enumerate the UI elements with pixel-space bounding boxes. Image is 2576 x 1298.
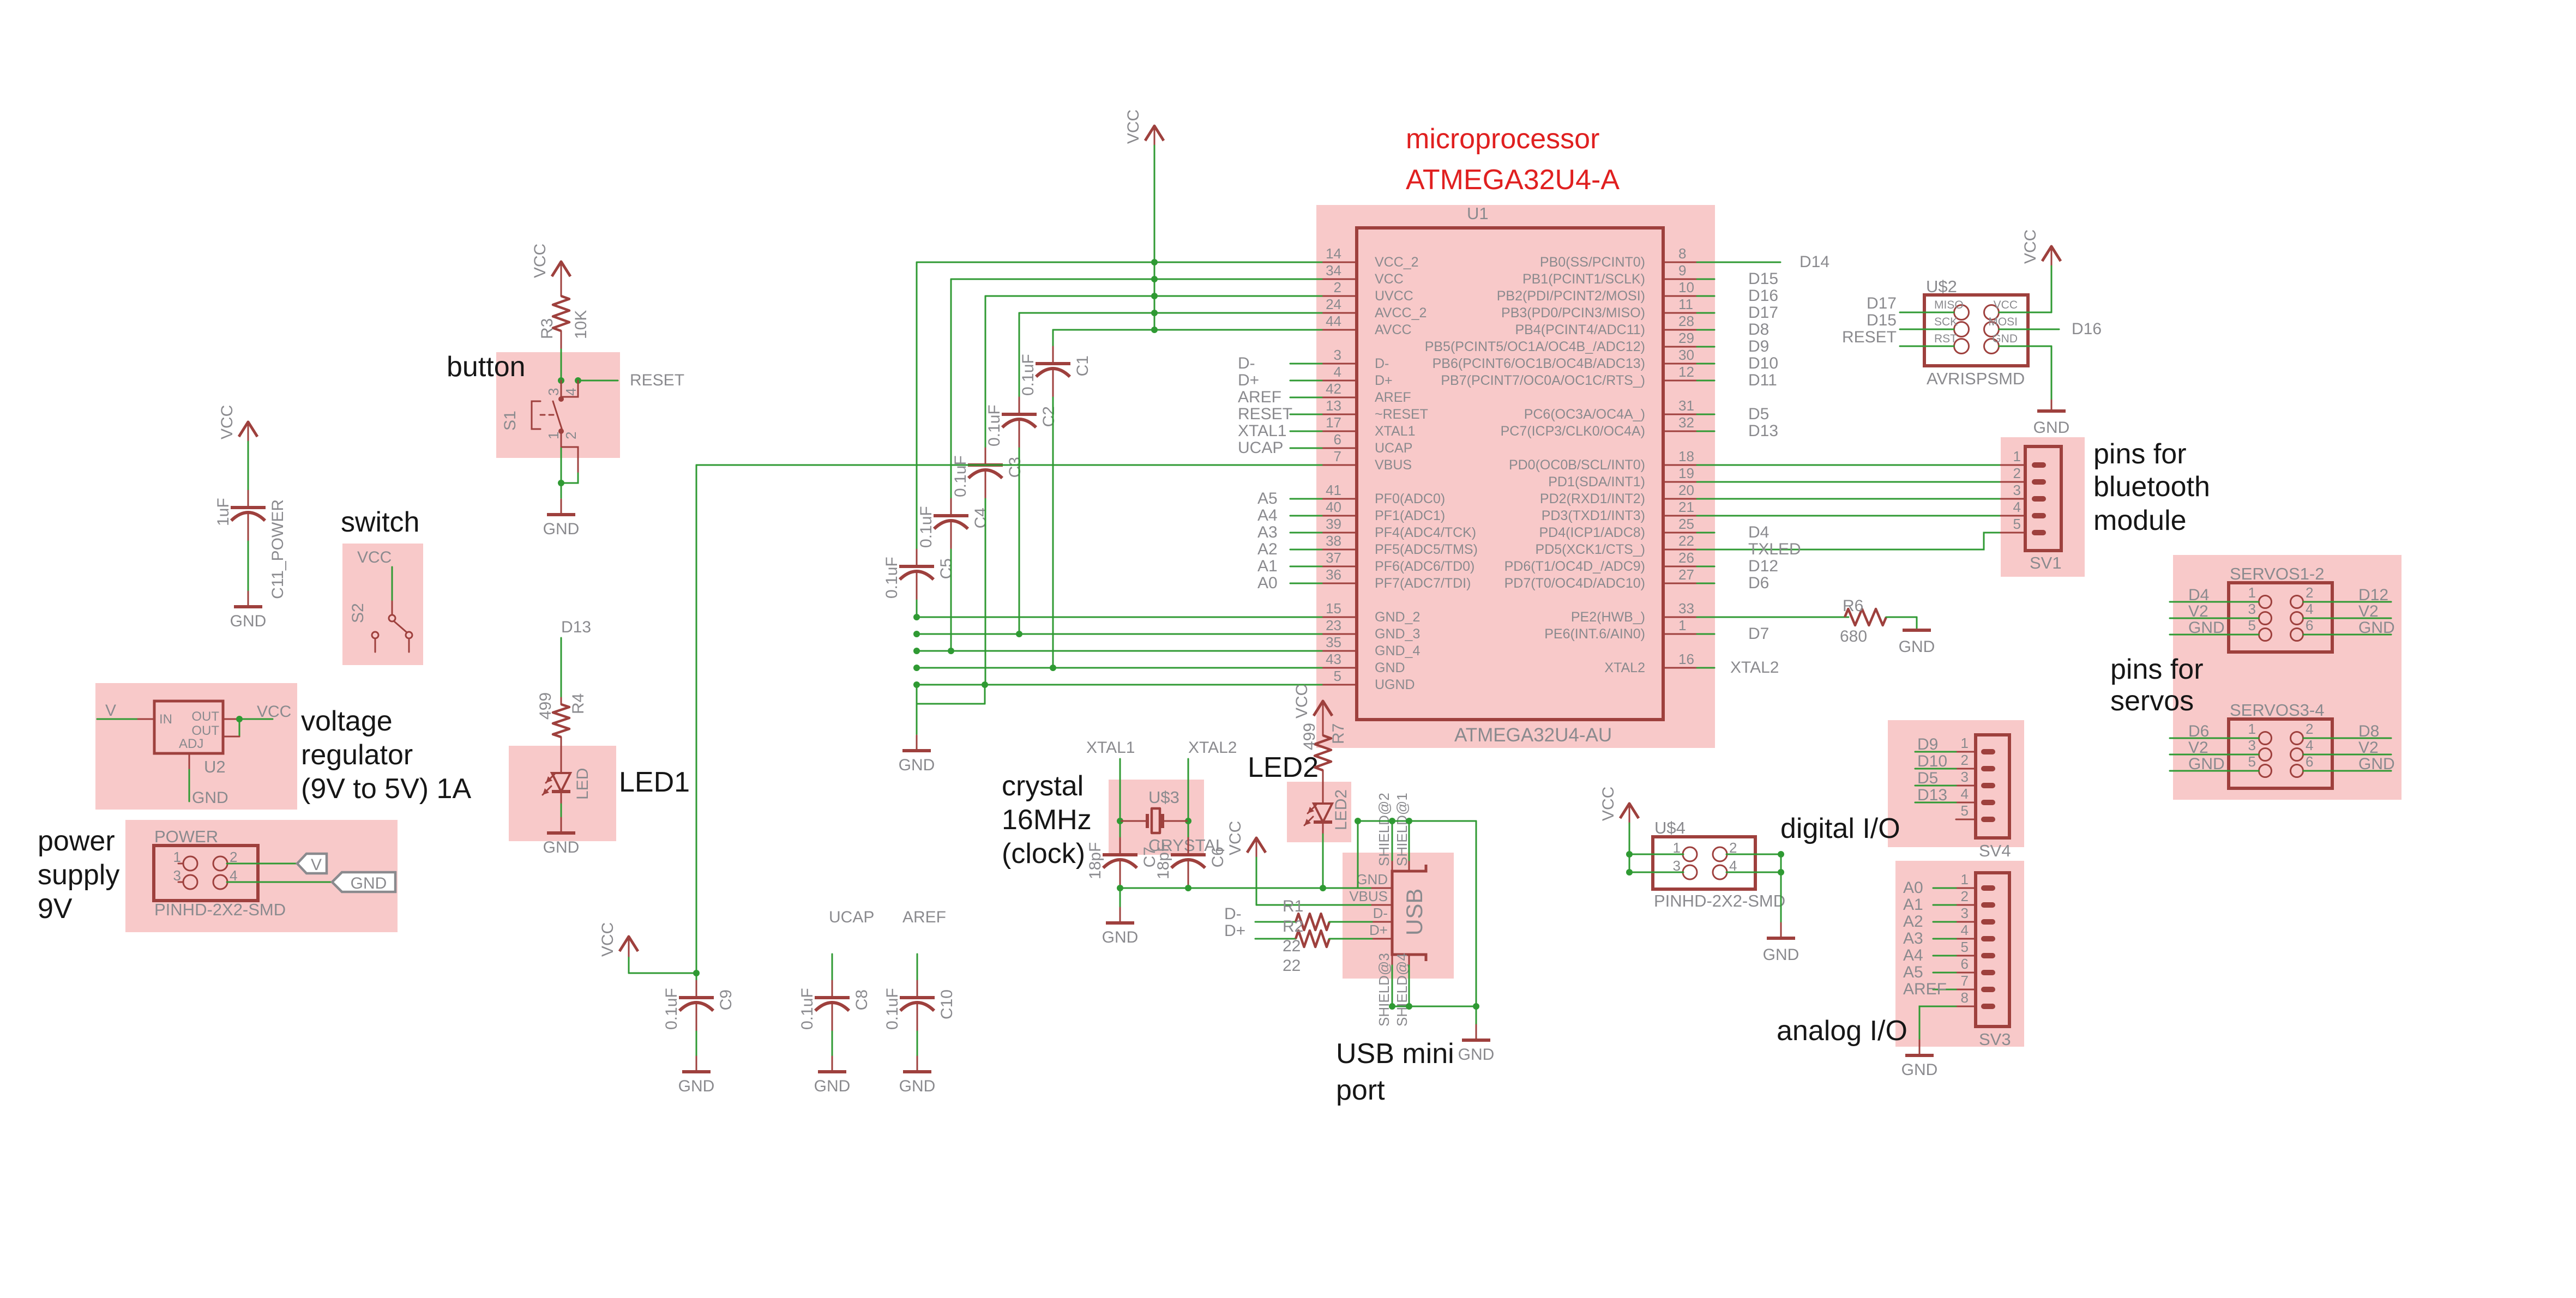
pad circle U$2 right GND (1984, 339, 1999, 354)
pin 36 (PF7(ADC7/TDI)) left stub (1322, 583, 1357, 584)
svg-text:7: 7 (1961, 973, 1969, 989)
wire VCC row pin row 0 to column C5 (917, 262, 1322, 263)
svg-text:GND: GND (1375, 660, 1405, 675)
wire C10 to ground (917, 1031, 918, 1056)
svg-text:USB: USB (1401, 889, 1427, 935)
svg-text:PF1(ADC1): PF1(ADC1) (1375, 508, 1445, 523)
svg-text:UCAP: UCAP (1375, 440, 1412, 456)
pin 11 (PB3(PD0/PCIN3/MISO)) right stub (1663, 312, 1697, 314)
svg-text:18pF: 18pF (1086, 842, 1104, 879)
svg-text:GND_4: GND_4 (1375, 643, 1420, 659)
svg-text:LED: LED (574, 768, 592, 800)
svg-text:3: 3 (1961, 769, 1969, 785)
svg-text:9: 9 (1678, 262, 1686, 279)
pin 5 (UGND) left stub (1322, 684, 1357, 686)
svg-text:(9V to 5V) 1A: (9V to 5V) 1A (301, 773, 471, 805)
svg-text:ATMEGA32U4-AU: ATMEGA32U4-AU (1454, 725, 1612, 746)
wire net A5 to SV3 (1933, 972, 1956, 974)
wire net AREF stub left of chip (1290, 397, 1322, 399)
svg-text:0.1uF: 0.1uF (883, 557, 901, 599)
wire SERVOS3-4 right pin 6 (2303, 770, 2391, 772)
svg-text:0.1uF: 0.1uF (663, 988, 681, 1030)
wire vertical C5 column (916, 262, 918, 550)
wire net D11 stub right of chip (1697, 380, 1714, 382)
pin 28 (PB4(PCINT4/ADC11)) right stub (1663, 329, 1697, 331)
svg-text:D-: D- (1373, 905, 1388, 921)
svg-text:PF7(ADC7/TDI): PF7(ADC7/TDI) (1375, 576, 1471, 591)
highlight LED2 (1287, 782, 1351, 842)
header SV4 body (1976, 735, 2009, 838)
svg-text:USB mini: USB mini (1336, 1038, 1454, 1070)
svg-text:~RESET: ~RESET (1375, 407, 1428, 422)
pin 15 (GND_2) left stub (1322, 617, 1357, 618)
wire net A3 stub left of chip (1290, 532, 1322, 534)
pin 2 SV1 (2001, 481, 2025, 483)
pin 2 (UVCC) left stub (1322, 295, 1357, 297)
svg-text:AREF: AREF (1238, 388, 1281, 406)
svg-text:D17: D17 (1867, 294, 1897, 312)
svg-text:2: 2 (1961, 752, 1969, 768)
svg-text:VCC_2: VCC_2 (1375, 255, 1419, 270)
pad circle U$4 pin2 (1713, 847, 1727, 861)
svg-text:GND: GND (2033, 419, 2070, 437)
svg-text:30: 30 (1678, 347, 1694, 363)
wire SERVOS1-2 right pin 6 (2303, 634, 2391, 636)
svg-text:GND: GND (351, 874, 387, 892)
pin 6 SV3 (1956, 972, 1976, 974)
svg-text:U$2: U$2 (1926, 277, 1957, 296)
svg-text:33: 33 (1678, 600, 1694, 617)
wire SERVOS3-4 left pin 1 (2170, 738, 2259, 739)
svg-text:ADJ: ADJ (179, 736, 203, 751)
wire vertical C4 column (950, 279, 952, 499)
svg-text:UCAP: UCAP (829, 908, 874, 926)
svg-text:D10: D10 (1748, 354, 1778, 372)
svg-text:29: 29 (1678, 330, 1694, 346)
wire vertical C3 column (985, 296, 986, 448)
wire D13 to R4 (561, 638, 562, 698)
svg-text:PB5(PCINT5/OC1A/OC4B_/ADC12): PB5(PCINT5/OC1A/OC4B_/ADC12) (1425, 339, 1645, 354)
svg-text:6: 6 (2306, 617, 2313, 633)
junction shield@2 (1389, 818, 1395, 824)
svg-text:1: 1 (2248, 584, 2256, 601)
pin 43 (GND) left stub (1322, 667, 1357, 669)
svg-text:C3: C3 (1006, 457, 1024, 478)
svg-text:2: 2 (563, 432, 579, 439)
svg-text:D11: D11 (1748, 371, 1777, 389)
pin IN stub (138, 719, 154, 720)
junction VCC rail (1151, 293, 1158, 299)
svg-text:PB1(PCINT1/SCLK): PB1(PCINT1/SCLK) (1522, 271, 1645, 287)
svg-text:4: 4 (2306, 601, 2313, 617)
svg-text:499: 499 (1301, 723, 1319, 750)
pin 3 (D-) left stub (1322, 363, 1357, 365)
pin 34 (VCC) left stub (1322, 279, 1357, 280)
svg-text:21: 21 (1678, 499, 1694, 515)
svg-text:LED2: LED2 (1248, 752, 1319, 783)
svg-text:V2: V2 (2188, 739, 2208, 757)
svg-text:1: 1 (173, 849, 181, 865)
pin 39 (PF4(ADC4/TCK)) left stub (1322, 532, 1357, 534)
pad circle SERVOS1-2 pin 3 (2259, 612, 2272, 625)
pin 3 SV3 (1956, 921, 1976, 923)
pad circle SERVOS3-4 pin 3 (2259, 748, 2272, 761)
wire net D9 to SV4 (1915, 751, 1956, 753)
svg-text:PF5(ADC5/TMS): PF5(ADC5/TMS) (1375, 542, 1478, 557)
svg-text:11: 11 (1678, 296, 1693, 312)
pin 2 SV3 (1956, 904, 1976, 906)
pin 1 SV1 (2001, 464, 2025, 466)
svg-text:V2: V2 (2358, 602, 2379, 620)
wire SERVOS3-4 left pin 3 (2170, 754, 2259, 756)
pad circle U$4 pin4 (1713, 865, 1727, 879)
svg-text:VBUS: VBUS (1349, 888, 1388, 904)
svg-text:A4: A4 (1903, 946, 1923, 964)
svg-text:D-: D- (1375, 356, 1389, 371)
capacitor C11_POWER 1uF (248, 491, 249, 508)
wire MOSI to D16 (1999, 329, 2059, 330)
pin 4 (D+) left stub (1322, 380, 1357, 382)
resistor R2 22 (1296, 931, 1329, 947)
svg-text:28: 28 (1678, 313, 1694, 329)
svg-text:port: port (1336, 1074, 1385, 1106)
svg-text:D6: D6 (2188, 722, 2209, 740)
junction C1 join (1050, 665, 1056, 671)
pin 5 SV3 (1956, 955, 1976, 957)
junction VCC rail (1151, 310, 1158, 316)
capacitor C8 0.1uF (832, 981, 833, 998)
svg-text:5: 5 (2248, 617, 2256, 633)
highlight microprocessor U1 (1316, 205, 1715, 748)
wire net AREF to SV3 (1933, 989, 1956, 991)
wire C5 bottom to GND bundle (916, 600, 918, 617)
svg-text:VBUS: VBUS (1375, 457, 1412, 473)
wire C11 to ground (248, 541, 249, 591)
svg-text:C8: C8 (853, 989, 871, 1010)
svg-text:VCC: VCC (1293, 684, 1311, 719)
pin 40 (PF1(ADC1)) left stub (1322, 515, 1357, 517)
wire LED2 to GND row (1322, 834, 1324, 888)
svg-text:module: module (2093, 505, 2187, 536)
svg-text:0.1uF: 0.1uF (952, 455, 970, 497)
svg-text:4: 4 (2013, 499, 2021, 515)
svg-text:GND: GND (1763, 946, 1799, 964)
pin 7 SV3 (1956, 989, 1976, 991)
svg-text:power: power (38, 825, 115, 857)
svg-text:44: 44 (1326, 313, 1341, 329)
svg-text:pins for: pins for (2110, 654, 2204, 685)
wire shield rail to gnd row (1357, 821, 1359, 888)
svg-text:18: 18 (1678, 448, 1694, 464)
wire PD net to SV1 pin 3 (1697, 498, 2001, 500)
flag GND (supply flag) (332, 872, 395, 892)
wire net D15 stub right of chip (1697, 279, 1714, 280)
pad circle SERVOS3-4 pin 5 (2259, 765, 2272, 777)
svg-text:R4: R4 (569, 693, 587, 714)
junction C2 join (1016, 631, 1022, 637)
svg-text:9V: 9V (38, 893, 73, 925)
wire vertical C1 column (1052, 330, 1054, 347)
svg-text:GND: GND (899, 756, 935, 774)
highlight LED1 (509, 746, 616, 841)
pin 37 (PF6(ADC6/TD0)) left stub (1322, 566, 1357, 568)
svg-text:VCC: VCC (357, 548, 392, 566)
junction crystal left (1117, 818, 1123, 824)
wire SERVOS3-4 left pin 5 (2170, 770, 2259, 772)
svg-text:PF4(ADC4/TCK): PF4(ADC4/TCK) (1375, 525, 1476, 540)
wire net D+ stub left of chip (1290, 380, 1322, 382)
svg-text:D-: D- (1238, 354, 1255, 372)
svg-text:23: 23 (1326, 617, 1341, 633)
pin 17 (XTAL1) left stub (1322, 431, 1357, 432)
svg-text:PD6(T1/OC4D_/ADC9): PD6(T1/OC4D_/ADC9) (1504, 559, 1645, 574)
wire net D16 stub right of chip (1697, 295, 1714, 297)
svg-text:IN: IN (159, 712, 172, 727)
pad circle SERVOS1-2 pin 1 (2259, 596, 2272, 608)
svg-text:PD3(TXD1/INT3): PD3(TXD1/INT3) (1542, 508, 1645, 523)
svg-text:S1: S1 (501, 410, 519, 431)
pad circle POWER pin 2 (213, 856, 227, 871)
svg-text:D8: D8 (2358, 722, 2379, 740)
junction C6 gnd (1185, 885, 1191, 891)
svg-text:LED2: LED2 (1332, 789, 1350, 830)
svg-text:34: 34 (1326, 262, 1341, 279)
svg-text:PB7(PCINT7/OC0A/OC1C/RTS_): PB7(PCINT7/OC0A/OC1C/RTS_) (1441, 373, 1645, 388)
capacitor C9 0.1uF (696, 973, 697, 981)
junction C4 join (948, 648, 954, 654)
svg-text:24: 24 (1326, 296, 1341, 312)
svg-text:VCC: VCC (1599, 787, 1617, 821)
svg-text:PF6(ADC6/TD0): PF6(ADC6/TD0) (1375, 559, 1474, 574)
junction shield@1 (1406, 818, 1412, 824)
wire net A1 stub left of chip (1290, 566, 1322, 568)
wire GND bundle row 25 (917, 684, 1322, 686)
svg-text:38: 38 (1326, 533, 1341, 549)
junction VCC rail (1151, 327, 1158, 333)
svg-text:OUT: OUT (191, 709, 219, 724)
USB connector body (1392, 865, 1426, 961)
wire PD net to SV1 pin 1 (1697, 464, 2001, 466)
svg-text:V2: V2 (2358, 739, 2379, 757)
svg-text:680: 680 (1840, 627, 1867, 645)
pin 3 SV1 (2001, 498, 2025, 500)
pin 14 (VCC_2) left stub (1322, 262, 1357, 263)
wire net D5 stub right of chip (1697, 414, 1714, 415)
svg-text:0.1uF: 0.1uF (883, 988, 901, 1030)
VCC supply symbol at U$2 (2042, 246, 2061, 261)
highlight SV1 bluetooth header (2001, 437, 2085, 577)
svg-text:S2: S2 (349, 603, 367, 623)
svg-text:SHIELD@1: SHIELD@1 (1394, 793, 1410, 866)
svg-text:POWER: POWER (154, 827, 218, 846)
header SV1 body (2025, 446, 2061, 551)
wire TXLED net to SV1 pin 5 (1697, 533, 2001, 550)
svg-text:C4: C4 (972, 508, 990, 528)
svg-text:UGND: UGND (1375, 677, 1415, 692)
pad circle SERVOS3-4 pin 2 (2291, 732, 2303, 745)
pin D- USB (1372, 921, 1392, 923)
wire net A3 to SV3 (1933, 938, 1956, 940)
svg-text:5: 5 (2013, 516, 2021, 532)
svg-text:VCC: VCC (1994, 299, 2018, 311)
wire C4 bottom to GND bundle (950, 550, 952, 651)
wire VCC row pin row 1 to column C4 (951, 279, 1322, 280)
wire POWER pin2 to V flag (227, 863, 297, 865)
junction C3 join (982, 681, 988, 688)
wire U$4 pin3 (1629, 872, 1683, 873)
svg-text:17: 17 (1326, 414, 1341, 431)
pin 10 (PB2(PDI/PCINT2/MOSI)) right stub (1663, 295, 1697, 297)
junction VCC rail (1151, 259, 1158, 265)
pin SHIELD@1 (1409, 860, 1410, 871)
pin 8 (PB0(SS/PCINT0)) right stub (1663, 262, 1697, 263)
svg-text:PD2(RXD1/INT2): PD2(RXD1/INT2) (1540, 491, 1645, 506)
svg-text:GND: GND (1899, 638, 1935, 656)
pad circle U$4 pin1 (1683, 847, 1697, 861)
wire PD net to SV1 pin 2 (1697, 481, 2001, 483)
wire R3 to S1 (561, 349, 562, 381)
LED LED1 (552, 773, 570, 792)
svg-text:1: 1 (1961, 735, 1969, 751)
highlight crystal (1109, 780, 1204, 855)
svg-text:1: 1 (1678, 617, 1686, 633)
header SERVOS1-2 body (2229, 583, 2332, 652)
svg-text:digital I/O: digital I/O (1780, 813, 1900, 844)
svg-text:XTAL2: XTAL2 (1604, 660, 1645, 675)
svg-text:R3: R3 (538, 318, 556, 339)
svg-text:GND: GND (2188, 755, 2225, 773)
ground symbol below bundle (916, 735, 918, 751)
svg-text:5: 5 (1961, 939, 1969, 955)
pin 44 (AVCC) left stub (1322, 329, 1357, 331)
wire C1 bottom to GND bundle (1052, 397, 1054, 668)
svg-text:D+: D+ (1369, 922, 1388, 938)
svg-text:A0: A0 (1903, 879, 1923, 897)
svg-text:D13: D13 (1748, 422, 1778, 440)
header U$4 (PINHD-2X2-SMD) body (1653, 837, 1755, 889)
pin 30 (PB6(PCINT6/OC1B/OC4B/ADC13)) right stub (1663, 363, 1697, 365)
svg-text:2: 2 (1334, 279, 1341, 295)
svg-text:0.1uF: 0.1uF (985, 405, 1003, 446)
wire SERVOS3-4 right pin 4 (2303, 754, 2391, 756)
svg-text:22: 22 (1678, 533, 1694, 549)
ground symbol below USB (1476, 1025, 1477, 1040)
pad circle SERVOS3-4 pin 1 (2259, 732, 2272, 745)
pad circle U$4 pin3 (1683, 865, 1697, 879)
VCC supply symbol near C9 (619, 937, 638, 951)
VCC supply symbol top-left (239, 422, 257, 437)
svg-text:3: 3 (2248, 601, 2256, 617)
pad circle U$2 right VCC (1984, 305, 1999, 320)
svg-text:GND: GND (230, 612, 267, 630)
svg-text:0.1uF: 0.1uF (798, 988, 816, 1030)
svg-text:D12: D12 (2358, 586, 2388, 604)
header U$2 AVRISPSMD body (1924, 295, 2028, 366)
svg-text:GND: GND (1901, 1061, 1938, 1079)
wire net D13 stub right of chip (1697, 431, 1714, 432)
svg-text:5: 5 (1334, 668, 1341, 684)
wire D+ to R2 (1255, 938, 1296, 940)
VCC supply symbol (top of power rail) (1145, 126, 1164, 141)
svg-text:GND: GND (2358, 755, 2395, 773)
svg-text:D9: D9 (1748, 337, 1769, 355)
svg-text:VCC: VCC (599, 922, 617, 957)
wire VCC to C11 (248, 442, 249, 491)
svg-text:PB2(PDI/PCINT2/MOSI): PB2(PDI/PCINT2/MOSI) (1497, 288, 1645, 304)
wire SV3 pin8 to ground (1919, 1006, 1956, 1040)
pin 35 (GND_4) left stub (1322, 650, 1357, 652)
svg-text:LED1: LED1 (619, 766, 690, 798)
junction S1 pin4 (575, 377, 581, 384)
svg-text:MOSI: MOSI (1988, 316, 2018, 328)
wire VCC rail vertical to pin rows (1154, 146, 1155, 330)
LED LED2 (1314, 804, 1332, 822)
pin OUT stub (223, 719, 239, 720)
wire RESET to RST (1900, 346, 1954, 347)
wire vertical C2 column (1019, 313, 1020, 397)
svg-text:2: 2 (2306, 721, 2313, 737)
svg-text:AREF: AREF (1375, 390, 1411, 405)
pin 1 SV3 (1956, 888, 1976, 889)
svg-text:U$4: U$4 (1654, 818, 1686, 837)
svg-text:R1: R1 (1283, 897, 1303, 915)
svg-text:PC6(OC3A/OC4A_): PC6(OC3A/OC4A_) (1524, 407, 1645, 422)
pad circle POWER pin 4 (213, 875, 227, 889)
svg-text:1: 1 (545, 432, 562, 439)
wire POWER pin4 to GND flag (227, 882, 332, 883)
wire XTAL1 down (1120, 759, 1121, 821)
wire C3 bottom to GND bundle (985, 499, 986, 685)
wire net A0 stub left of chip (1290, 583, 1322, 584)
wire U$4 pin2 (1726, 854, 1781, 855)
svg-text:19: 19 (1678, 465, 1694, 481)
junction VCC rail (1151, 276, 1158, 282)
svg-text:D6: D6 (1748, 574, 1769, 592)
wire net A4 stub left of chip (1290, 515, 1322, 517)
svg-text:D14: D14 (1799, 253, 1829, 271)
svg-text:0.1uF: 0.1uF (917, 506, 935, 548)
svg-text:4: 4 (1961, 922, 1969, 938)
svg-text:bluetooth: bluetooth (2093, 471, 2210, 503)
resistor R4 499 (561, 698, 562, 704)
pad circle U$2 left SCK (1954, 322, 1969, 337)
svg-text:VCC: VCC (218, 405, 236, 439)
wire net UCAP stub left of chip (1290, 448, 1322, 449)
wire VCC row pin row 3 to column C2 (1019, 312, 1322, 314)
wire shield bottom rail (1392, 965, 1393, 1006)
pad circle U$2 left RST (1954, 339, 1969, 354)
svg-text:4: 4 (1961, 786, 1969, 802)
wire net A4 to SV3 (1933, 955, 1956, 957)
svg-text:3: 3 (2248, 737, 2256, 753)
pin 13 (~RESET) left stub (1322, 414, 1357, 415)
svg-text:PC7(ICP3/CLK0/OC4A): PC7(ICP3/CLK0/OC4A) (1501, 424, 1645, 439)
svg-text:26: 26 (1678, 550, 1694, 566)
svg-text:C5: C5 (937, 558, 955, 579)
svg-text:D+: D+ (1375, 373, 1393, 388)
svg-text:D15: D15 (1748, 270, 1778, 288)
pin 5 SV4 (1956, 819, 1976, 820)
pin 4 SV1 (2001, 515, 2025, 517)
svg-text:MISO: MISO (1934, 299, 1964, 311)
wire GND bundle row 22 (917, 633, 1322, 635)
junction OUT (236, 716, 243, 722)
wire VCC to S2 (392, 567, 393, 601)
wire R2 to USB D+ (1329, 938, 1372, 940)
svg-text:RESET: RESET (1238, 405, 1292, 423)
header SERVOS3-4 body (2229, 719, 2332, 788)
VCC supply symbol above R3 (552, 262, 570, 276)
